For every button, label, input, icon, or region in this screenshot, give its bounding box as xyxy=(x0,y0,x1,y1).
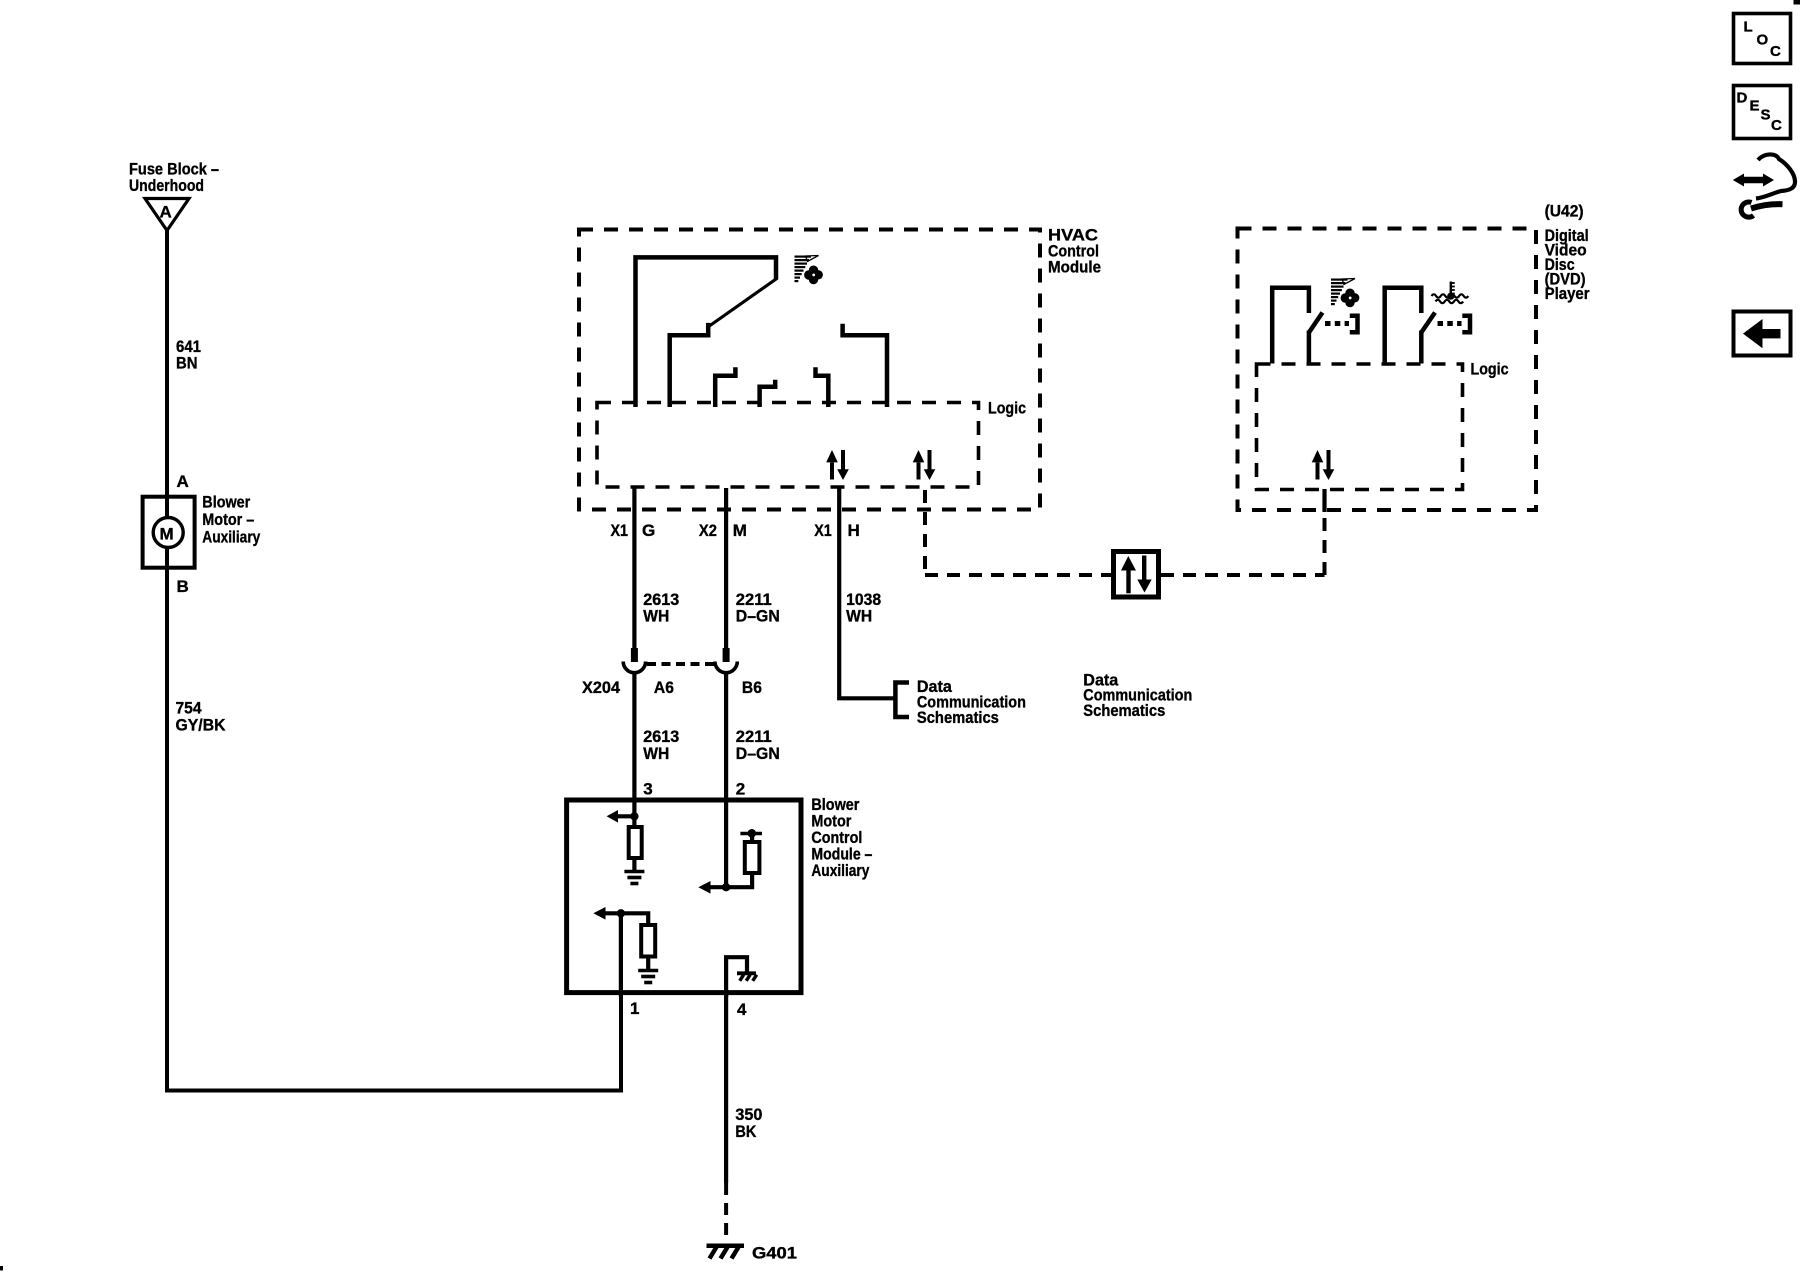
svg-text:GY/BK: GY/BK xyxy=(176,716,227,735)
svg-text:Blower: Blower xyxy=(202,493,250,512)
svg-text:2: 2 xyxy=(736,780,745,799)
svg-text:C: C xyxy=(1770,43,1781,60)
svg-text:1: 1 xyxy=(630,999,639,1018)
svg-text:Underhood: Underhood xyxy=(129,176,204,195)
svg-text:Module: Module xyxy=(1048,258,1101,277)
svg-text:4: 4 xyxy=(737,1000,747,1019)
svg-text:B: B xyxy=(177,577,189,596)
svg-text:X2: X2 xyxy=(699,521,717,540)
svg-text:D–GN: D–GN xyxy=(736,606,780,625)
svg-text:X1: X1 xyxy=(814,521,832,540)
svg-text:D–GN: D–GN xyxy=(736,744,780,763)
svg-text:E: E xyxy=(1750,98,1760,115)
svg-text:X1: X1 xyxy=(611,521,629,540)
svg-text:G: G xyxy=(642,521,655,540)
svg-text:S: S xyxy=(1761,107,1771,124)
svg-text:M: M xyxy=(733,521,747,540)
svg-text:Logic: Logic xyxy=(988,399,1026,418)
svg-text:A: A xyxy=(177,472,189,491)
svg-text:Auxiliary: Auxiliary xyxy=(202,528,260,547)
svg-text:Schematics: Schematics xyxy=(917,708,999,727)
svg-text:BK: BK xyxy=(735,1122,757,1141)
svg-text:Logic: Logic xyxy=(1471,360,1509,379)
svg-text:C: C xyxy=(1771,117,1782,134)
svg-text:D: D xyxy=(1737,90,1748,107)
svg-text:Motor –: Motor – xyxy=(202,510,254,529)
svg-text:L: L xyxy=(1744,19,1753,36)
svg-text:Schematics: Schematics xyxy=(1083,701,1165,720)
svg-text:Player: Player xyxy=(1545,284,1590,303)
svg-text:(U42): (U42) xyxy=(1545,202,1584,221)
svg-text:A: A xyxy=(160,203,172,222)
svg-text:WH: WH xyxy=(643,744,669,763)
svg-text:O: O xyxy=(1757,32,1769,49)
svg-text:Auxiliary: Auxiliary xyxy=(811,861,869,880)
svg-text:B6: B6 xyxy=(742,678,762,697)
svg-text:G401: G401 xyxy=(752,1244,797,1263)
svg-text:A6: A6 xyxy=(654,678,674,697)
svg-text:H: H xyxy=(848,521,860,540)
svg-text:X204: X204 xyxy=(582,678,621,697)
svg-text:3: 3 xyxy=(643,780,652,799)
svg-text:WH: WH xyxy=(846,606,872,625)
svg-text:WH: WH xyxy=(643,606,669,625)
svg-text:M: M xyxy=(160,525,174,544)
svg-text:BN: BN xyxy=(176,353,198,372)
